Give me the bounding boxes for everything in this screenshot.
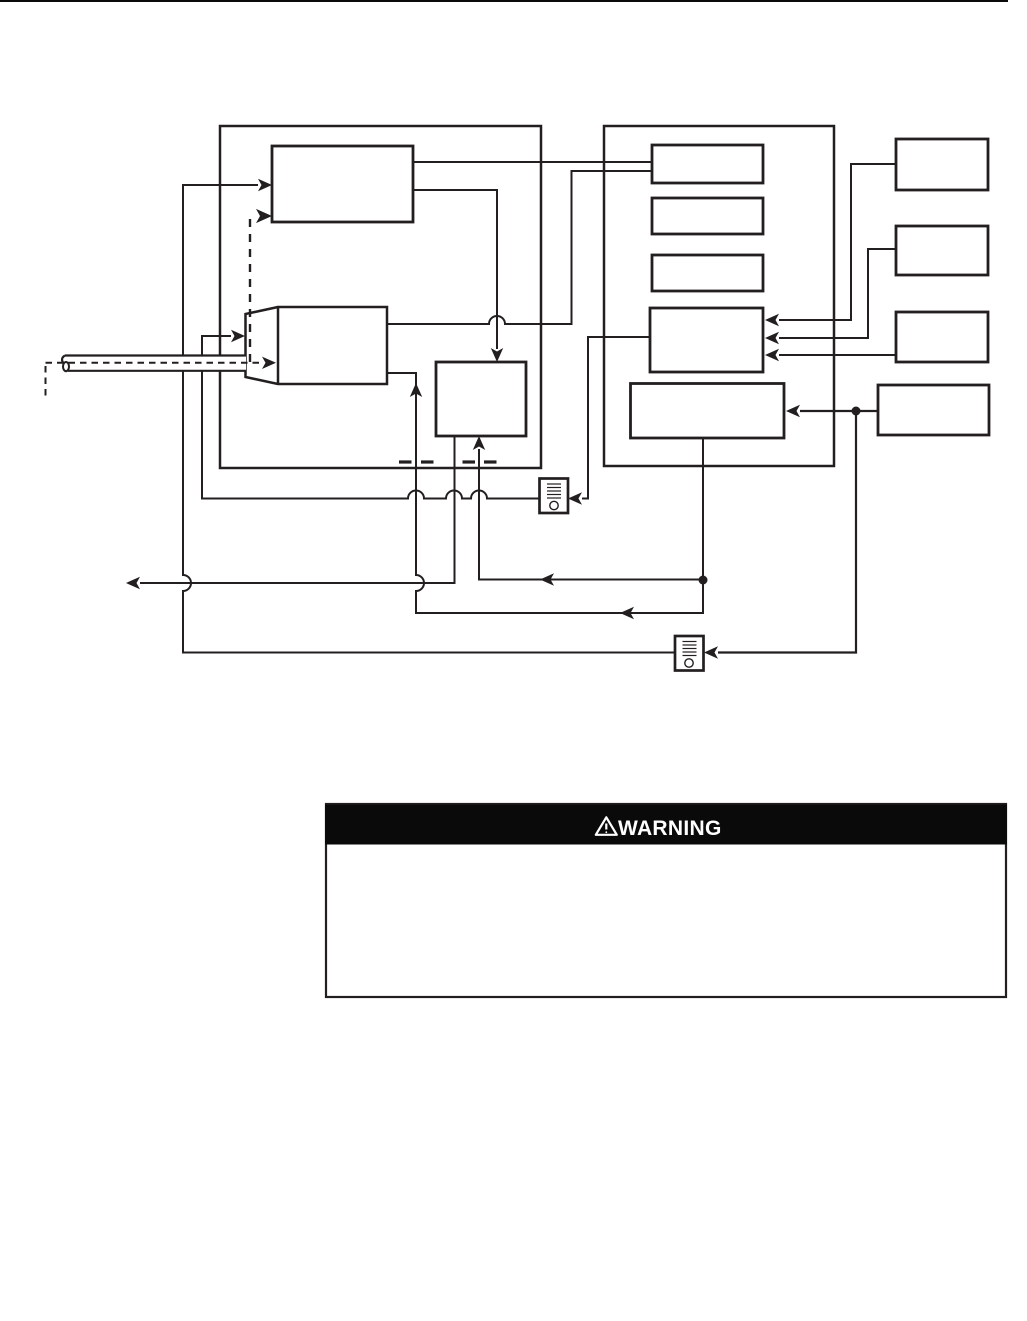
wire: junction to module M1 bottom up-arrow: [473, 436, 703, 586]
wire: relay K1 to probe-heater arrow via left riser: [202, 330, 540, 499]
wire: flag box F1 lower elbow with up-arrow from bottom bus: [387, 373, 703, 619]
right-group box R3: [652, 255, 763, 291]
wire: box A to R4 (arrow 1): [765, 164, 896, 326]
relay icon K2: [675, 636, 704, 671]
wire: box B1 output to module M1 (right then down, arrow into top): [413, 190, 503, 362]
box B1 (top left block): [272, 146, 413, 222]
outer box B: [896, 226, 988, 275]
right-group box R4: [650, 308, 763, 372]
wire: box R4 left output down to relay K1: [568, 337, 650, 505]
wire: box D to R5 with junction and drop to relay K2: [704, 405, 878, 659]
wire: box B1 output to right-group box R1 (upper line): [413, 161, 652, 163]
wire: relay K2 feed, left riser and top feed into box B1 (with crossover hop): [183, 179, 675, 653]
relay icon K1: [540, 479, 569, 514]
left group enclosure: [220, 126, 541, 468]
module M1 (center block): [436, 362, 526, 436]
boundary dash marks over riser x=479: [463, 460, 497, 463]
wire: box R5 bottom drop to junction node and down to bottom bus: [702, 438, 704, 614]
dashed sample-flow centerline with arrow into flag box F1: [46, 363, 263, 397]
flag box F1 (beveled block): [246, 307, 388, 384]
warning panel black header: [325, 805, 1007, 845]
sensing tube (pipe): [62, 356, 246, 372]
junction node dot: [699, 576, 708, 585]
wire: module M1 bottom-left drop to leftward external arrow: [126, 436, 455, 589]
warning triangle icon: [596, 817, 617, 835]
outer box C: [896, 312, 988, 362]
top rule bar: [0, 0, 1008, 2]
right-group box R5 (wide): [631, 384, 785, 439]
warning panel frame: [326, 804, 1006, 997]
right-group box R1: [652, 145, 763, 183]
right-group box R2: [652, 198, 763, 234]
boundary dash marks over riser x=415: [399, 460, 434, 463]
wire: flag box F1 output to right-group box R1 (hop over M1 riser): [387, 171, 652, 324]
junction dot on box D feed: [852, 407, 861, 416]
wire: box B to R4 (arrow 2): [765, 249, 896, 344]
outer box A (top right): [896, 139, 988, 190]
outer box D: [878, 385, 989, 435]
svg-text:WARNING: WARNING: [618, 817, 722, 840]
right group enclosure: [604, 126, 834, 466]
dashed pilot line up to box B1 with arrow: [250, 209, 272, 362]
wire: box C to R4 (arrow 3): [765, 349, 896, 361]
